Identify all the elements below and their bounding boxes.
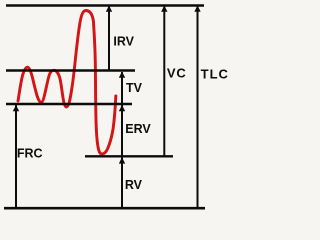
svg-text:TV: TV: [126, 81, 143, 95]
svg-text:RV: RV: [125, 178, 143, 192]
svg-text:IRV: IRV: [113, 35, 134, 49]
svg-text:TLC: TLC: [201, 66, 229, 81]
svg-text:ERV: ERV: [125, 122, 151, 136]
svg-text:FRC: FRC: [17, 147, 43, 161]
svg-text:VC: VC: [167, 66, 187, 81]
